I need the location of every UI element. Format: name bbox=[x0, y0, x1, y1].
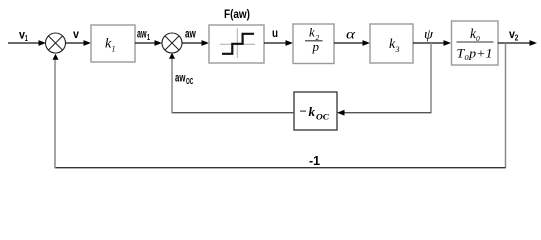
block K3 gain k3 bbox=[370, 24, 413, 63]
wire K2 to block k3 bbox=[334, 42, 364, 44]
svg-text:2: 2 bbox=[515, 34, 519, 43]
svg-text:3: 3 bbox=[395, 45, 400, 54]
block K1 gain k1 bbox=[91, 25, 135, 62]
svg-text:−: − bbox=[299, 104, 307, 119]
wire outer feedback up into S1 bbox=[54, 59, 56, 168]
svg-text:ψ: ψ bbox=[424, 28, 433, 43]
wire K3 to block k0 bbox=[413, 42, 445, 44]
wire inner feedback up into S2 bbox=[171, 58, 173, 113]
svg-text:1: 1 bbox=[147, 33, 150, 42]
wire inner feedback right segment bbox=[343, 112, 431, 114]
svg-text:α: α bbox=[346, 28, 356, 43]
block KOC feedback -kOC bbox=[294, 92, 337, 130]
wire v2 branch down bbox=[505, 43, 507, 168]
svg-text:p: p bbox=[312, 39, 320, 54]
wire K0 to output bbox=[498, 42, 531, 44]
wire S1 to block k1 bbox=[66, 42, 86, 44]
block K0 transfer k0/(T0p+1) bbox=[452, 21, 499, 65]
svg-text:1: 1 bbox=[112, 45, 116, 54]
svg-text:u: u bbox=[272, 28, 278, 40]
svg-text:F(aw): F(aw) bbox=[224, 9, 250, 21]
wire S2 to block F bbox=[182, 42, 203, 44]
svg-text:aw: aw bbox=[137, 28, 147, 40]
svg-text:OC: OC bbox=[186, 77, 193, 86]
wire input to summer S1 bbox=[8, 42, 40, 44]
wire F to block k2/p bbox=[264, 42, 287, 44]
svg-text:v: v bbox=[73, 29, 80, 41]
block F nonlinearity bbox=[209, 25, 264, 63]
svg-text:aw: aw bbox=[185, 29, 196, 41]
block K2 integrator k2/p bbox=[293, 24, 334, 64]
svg-text:aw: aw bbox=[175, 73, 185, 85]
wire inner feedback left segment bbox=[172, 112, 294, 114]
wire K1 to summer S2 bbox=[135, 42, 156, 44]
summing junction S2 bbox=[162, 33, 182, 53]
svg-text:-1: -1 bbox=[309, 153, 320, 168]
svg-text:1: 1 bbox=[25, 34, 28, 43]
svg-text:k: k bbox=[309, 104, 316, 119]
wire psi takeoff down bbox=[430, 43, 432, 113]
summing junction S1 bbox=[46, 33, 66, 53]
svg-text:OC: OC bbox=[316, 113, 330, 122]
wire outer feedback bottom segment bbox=[55, 167, 506, 169]
svg-text:k: k bbox=[309, 25, 315, 40]
svg-text:T₀p+1: T₀p+1 bbox=[457, 46, 493, 61]
